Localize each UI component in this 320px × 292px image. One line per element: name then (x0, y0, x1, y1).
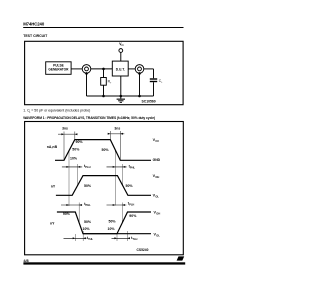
svg-text:THL: THL (88, 237, 93, 241)
svg-text:GND: GND (153, 158, 161, 162)
svg-text:nA,nB: nA,nB (47, 145, 58, 149)
svg-text:GENERATOR: GENERATOR (48, 68, 69, 72)
svg-text:CC: CC (121, 44, 125, 47)
svg-text:90%: 90% (76, 140, 84, 144)
svg-text:10%: 10% (108, 227, 116, 231)
svg-text:CS5240: CS5240 (137, 248, 149, 252)
svg-text:nY: nY (50, 221, 55, 225)
svg-text:3ns: 3ns (114, 127, 120, 131)
svg-text:OL: OL (156, 233, 160, 237)
svg-text:T: T (110, 83, 112, 85)
svg-text:PHL: PHL (130, 165, 136, 169)
svg-text:OH: OH (155, 175, 159, 179)
svg-text:50%: 50% (84, 184, 92, 188)
svg-text:50%: 50% (72, 147, 80, 151)
svg-text:90%: 90% (129, 214, 137, 218)
svg-text:D.U.T.: D.U.T. (116, 67, 125, 71)
svg-text:SC10560: SC10560 (142, 99, 156, 103)
svg-text:ST: ST (179, 257, 183, 261)
svg-text:L: L (161, 82, 163, 84)
svg-text:TLH: TLH (132, 237, 137, 241)
svg-text:OL: OL (155, 195, 159, 199)
svg-text:50%: 50% (126, 184, 134, 188)
svg-text:50%: 50% (102, 148, 110, 152)
svg-text:nY: nY (51, 184, 56, 188)
svg-text:PLH: PLH (129, 202, 134, 206)
svg-text:PLH: PLH (85, 165, 90, 169)
svg-text:= 50 pF or equivalent (include: = 50 pF or equivalent (includes probe) (30, 109, 90, 113)
svg-text:50%: 50% (109, 220, 117, 224)
svg-text:OH: OH (156, 212, 160, 216)
svg-text:50%: 50% (84, 220, 92, 224)
svg-text:WAVEFORM 1 : PROPAGATION DELAY: WAVEFORM 1 : PROPAGATION DELAYS, TRANSIT… (23, 116, 155, 120)
svg-text:M74HC240: M74HC240 (23, 21, 45, 26)
svg-text:90%: 90% (63, 212, 71, 216)
svg-text:TEST CIRCUIT: TEST CIRCUIT (23, 34, 48, 38)
svg-text:PHL: PHL (86, 203, 92, 207)
svg-text:10%: 10% (70, 157, 78, 161)
svg-text:CC: CC (155, 139, 159, 143)
svg-text:10%: 10% (83, 227, 91, 231)
svg-text:3ns: 3ns (62, 127, 68, 131)
